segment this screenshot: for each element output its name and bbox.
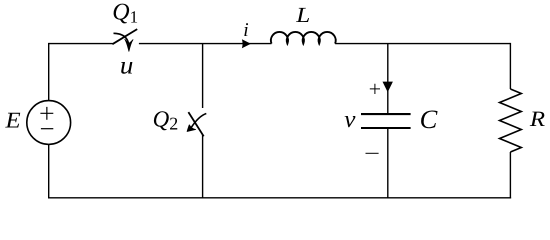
wire capacitor branch upper bbox=[387, 44, 389, 114]
switch Q2 blade bbox=[188, 112, 203, 136]
wire top-middle (Q1 to inductor) bbox=[139, 43, 272, 45]
wire left lower bbox=[48, 144, 50, 198]
svg-text:i: i bbox=[243, 20, 248, 41]
wire capacitor branch lower bbox=[387, 129, 389, 198]
inductor L bbox=[271, 32, 336, 44]
wire Q2 branch lower bbox=[202, 134, 204, 198]
wire top-right (inductor to right corner) bbox=[335, 43, 510, 45]
switch Q1 blade bbox=[112, 29, 137, 44]
plus sign (capacitor) bbox=[370, 84, 380, 94]
switch Q2 control arrow bbox=[191, 114, 206, 128]
wire left upper bbox=[48, 43, 50, 101]
current arrow i bbox=[242, 39, 251, 48]
resistor R bbox=[500, 89, 522, 152]
svg-text:R: R bbox=[529, 106, 546, 131]
plus sign (source) bbox=[40, 107, 53, 120]
wire right upper bbox=[509, 43, 511, 89]
wire right lower bbox=[509, 152, 511, 199]
switch Q1 control arrow bbox=[114, 33, 129, 45]
capacitor C bottom plate bbox=[361, 127, 411, 129]
svg-text:E: E bbox=[4, 108, 21, 133]
capacitor C top plate bbox=[361, 113, 411, 115]
wire Q2 branch upper bbox=[202, 44, 204, 108]
minus sign (source) bbox=[41, 128, 53, 130]
voltage source E bbox=[27, 101, 71, 145]
minus sign (capacitor) bbox=[366, 152, 379, 154]
svg-text:C: C bbox=[420, 104, 438, 134]
arrow into capacitor bbox=[383, 82, 393, 93]
svg-text:L: L bbox=[295, 3, 310, 27]
wire bottom bbox=[48, 197, 511, 199]
wire top-left (source to Q1) bbox=[49, 43, 113, 45]
svg-text:v: v bbox=[344, 107, 356, 133]
svg-text:u: u bbox=[120, 52, 134, 79]
